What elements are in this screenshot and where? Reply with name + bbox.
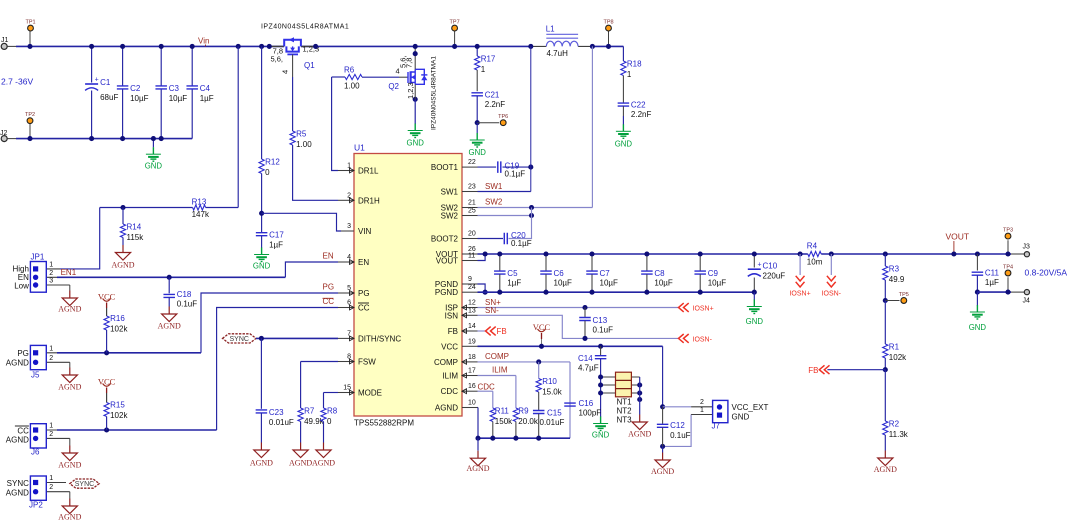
- svg-text:ISN: ISN: [445, 311, 459, 320]
- svg-text:FB: FB: [808, 366, 818, 375]
- wire R6 to Q2 gate: [362, 76, 399, 78]
- junction R15 tap: [104, 427, 109, 432]
- junction C1/Vin: [89, 44, 94, 49]
- svg-text:TP6: TP6: [498, 114, 508, 120]
- wire SN+ net: [478, 307, 679, 309]
- svg-text:C22: C22: [631, 101, 646, 110]
- label C16: [579, 399, 602, 418]
- svg-text:68uF: 68uF: [100, 93, 118, 102]
- connector J3: [1011, 244, 1030, 257]
- svg-text:GND: GND: [253, 262, 271, 271]
- svg-text:10: 10: [468, 400, 476, 407]
- junction R16 tap: [104, 350, 109, 355]
- svg-text:4: 4: [281, 70, 290, 74]
- wire to TP5: [885, 300, 899, 302]
- svg-text:BOOT1: BOOT1: [431, 163, 459, 172]
- wire R3 top: [884, 254, 886, 266]
- svg-text:102k: 102k: [110, 325, 128, 334]
- svg-text:CDC: CDC: [441, 387, 459, 396]
- test point TP7: [454, 31, 456, 46]
- capacitor C13: [579, 316, 613, 335]
- svg-text:AGND: AGND: [435, 404, 458, 413]
- ground AGND NT: [628, 415, 651, 439]
- wire CC riser: [217, 308, 338, 431]
- wire Q2 drain: [414, 46, 416, 69]
- wire AGND pin drop: [477, 408, 479, 439]
- wire C7 bottom lead: [591, 274, 593, 292]
- wire Q1 gate to R5: [292, 77, 294, 131]
- svg-text:GND: GND: [615, 140, 633, 149]
- TP8 circle: [603, 19, 613, 31]
- wire C6 bottom lead: [545, 274, 547, 292]
- wire VOUT rail left: [478, 253, 808, 255]
- wire R15 bottom: [106, 417, 108, 431]
- wire C12 bottom lead: [662, 428, 664, 447]
- svg-text:VCC: VCC: [441, 342, 458, 351]
- svg-text:Q1: Q1: [304, 61, 315, 70]
- svg-text:C2: C2: [130, 84, 141, 93]
- svg-text:TP5: TP5: [899, 292, 909, 298]
- svg-text:IOSN-: IOSN-: [693, 337, 713, 344]
- junction C12/J7: [660, 404, 665, 409]
- wire R11 bottom: [492, 422, 494, 439]
- wire PG riser: [201, 293, 338, 353]
- wire C14 top lead: [600, 346, 602, 355]
- wire JP2 pin2 down: [69, 492, 71, 499]
- svg-text:1: 1: [49, 261, 53, 268]
- transistor Q1: [269, 37, 315, 70]
- capacitor C17: [256, 231, 284, 250]
- svg-text:JP2: JP2: [29, 501, 43, 510]
- svg-text:16: 16: [468, 383, 476, 390]
- junction R17/Vin: [475, 44, 480, 49]
- ground GND Q2: [407, 124, 425, 148]
- wire C1 bottom lead: [91, 91, 93, 139]
- resistor R12: [259, 158, 280, 178]
- svg-text:J7: J7: [712, 422, 721, 431]
- svg-text:TP1: TP1: [25, 19, 35, 25]
- svg-text:VOUT: VOUT: [436, 257, 458, 266]
- wire R3 to TP5 node: [884, 280, 886, 301]
- svg-text:FB: FB: [448, 327, 458, 336]
- svg-text:23: 23: [468, 184, 476, 191]
- svg-text:SW1: SW1: [441, 188, 459, 197]
- wire C22 lead btm: [622, 106, 624, 116]
- svg-text:49.9: 49.9: [889, 275, 905, 284]
- capacitor C18: [163, 290, 197, 309]
- junction AGND rail 538.7: [536, 436, 541, 441]
- capacitor C2: [117, 84, 149, 103]
- J4 jack: [1024, 290, 1029, 295]
- svg-text:11.3k: 11.3k: [889, 430, 909, 439]
- svg-text:2.2nF: 2.2nF: [485, 100, 506, 109]
- svg-text:14: 14: [468, 323, 476, 330]
- svg-text:SW2: SW2: [485, 198, 503, 207]
- wire J2 stub: [7, 138, 16, 140]
- svg-text:22: 22: [468, 159, 476, 166]
- junction C12 bottom: [660, 444, 665, 449]
- wire to VIN pin: [262, 213, 341, 231]
- svg-text:0.1uF: 0.1uF: [593, 326, 614, 335]
- svg-text:20: 20: [468, 231, 476, 238]
- wire R7 to AGND: [300, 422, 302, 443]
- svg-text:PG: PG: [17, 349, 29, 358]
- svg-text:IPZ40N04S5L4R8ATMA1: IPZ40N04S5L4R8ATMA1: [431, 56, 438, 130]
- svg-text:0.1µF: 0.1µF: [505, 170, 526, 179]
- wire PGND to GND: [753, 292, 755, 300]
- ground AGND J6: [58, 446, 81, 470]
- resistor R6: [344, 66, 362, 91]
- svg-text:COMP: COMP: [485, 352, 509, 361]
- junction TP1/Vin: [27, 44, 32, 49]
- svg-text:AGND: AGND: [289, 459, 312, 468]
- svg-text:NT1: NT1: [617, 398, 633, 407]
- svg-text:17: 17: [468, 368, 476, 375]
- wire PGND rail: [478, 291, 755, 293]
- wire C1 top lead: [91, 46, 93, 82]
- svg-text:SW2: SW2: [441, 212, 459, 221]
- wire CC net: [57, 429, 217, 431]
- svg-text:1: 1: [49, 423, 53, 430]
- svg-text:VIN: VIN: [358, 227, 372, 236]
- svg-text:24: 24: [468, 284, 476, 291]
- wire J4 rail: [977, 291, 1011, 293]
- wire COMP to R10: [538, 362, 540, 379]
- svg-text:10m: 10m: [807, 258, 823, 267]
- svg-text:AGND: AGND: [312, 459, 335, 468]
- net tie NT1 NT2 NT3 block: [601, 372, 640, 424]
- svg-text:C11: C11: [985, 269, 1000, 278]
- svg-text:GND: GND: [592, 431, 610, 440]
- svg-text:C1: C1: [100, 78, 111, 87]
- wire C21 gnd stem: [476, 123, 478, 133]
- wire R14 to AGND: [122, 238, 124, 246]
- svg-text:R15: R15: [110, 401, 125, 410]
- junction C5 bottom: [497, 290, 502, 295]
- svg-text:GND: GND: [469, 148, 487, 157]
- svg-text:AGND: AGND: [651, 467, 674, 476]
- svg-text:SYNC: SYNC: [75, 481, 94, 488]
- capacitor C9: [694, 269, 726, 288]
- svg-text:C16: C16: [579, 399, 594, 408]
- wire VCC rail: [478, 345, 663, 347]
- wire Q2 source to GND: [414, 99, 416, 124]
- wire to R2: [884, 370, 886, 421]
- wire divider to JP1 pin1: [60, 208, 100, 269]
- wire R10 to C15: [538, 392, 540, 410]
- capacitor C16: [564, 403, 576, 406]
- wire C2 top lead: [122, 46, 124, 85]
- test point TP6: [498, 114, 508, 126]
- svg-text:2: 2: [49, 355, 53, 362]
- wire J1 stub: [7, 45, 16, 47]
- resistor R7: [298, 407, 325, 427]
- junction C7 top: [589, 251, 594, 256]
- svg-text:18: 18: [468, 354, 476, 361]
- junction SW2/pin25: [529, 205, 534, 210]
- svg-text:19: 19: [468, 338, 476, 345]
- junction NT left 385: [598, 382, 603, 387]
- wire FSW drop: [300, 362, 302, 409]
- resistor R18: [621, 60, 642, 80]
- svg-text:AGND: AGND: [6, 489, 29, 498]
- ground GND NT: [592, 417, 610, 440]
- junction C10 top: [752, 251, 757, 256]
- resistor R8: [321, 407, 338, 427]
- junction C19/SW1: [528, 165, 533, 170]
- junction C3/Vin: [159, 44, 164, 49]
- svg-text:C23: C23: [269, 408, 284, 417]
- junction pin25 riser: [529, 213, 534, 218]
- J6 box: [6, 423, 70, 457]
- svg-text:0.01uF: 0.01uF: [540, 418, 565, 427]
- svg-text:C17: C17: [269, 231, 284, 240]
- label net Vin: [198, 37, 209, 47]
- junction R10 tap: [536, 359, 541, 364]
- ground GND C11: [969, 305, 987, 332]
- svg-text:VCC: VCC: [98, 377, 116, 387]
- svg-text:VCC_EXT: VCC_EXT: [732, 403, 769, 412]
- svg-text:AGND: AGND: [111, 261, 134, 270]
- junction R12 branch: [259, 44, 264, 49]
- wire EN1 to EN pin: [285, 262, 338, 277]
- svg-text:SW1: SW1: [485, 182, 503, 191]
- junction C14 tap: [598, 344, 603, 349]
- wire to R1: [884, 301, 886, 345]
- wire R1 to FB node: [884, 358, 886, 370]
- capacitor C21: [471, 90, 505, 109]
- svg-text:JP1: JP1: [31, 253, 45, 262]
- test point TP1: [29, 31, 31, 46]
- svg-text:AGND: AGND: [6, 436, 29, 445]
- connector J2: [0, 130, 8, 142]
- junction AGND rail 515.9: [513, 436, 518, 441]
- wire R16 bottom: [106, 330, 108, 353]
- junction TP8/VOUT node: [606, 44, 611, 49]
- svg-text:0.1uF: 0.1uF: [670, 431, 691, 440]
- svg-text:C8: C8: [654, 269, 665, 278]
- svg-text:9: 9: [468, 276, 472, 283]
- svg-text:1: 1: [49, 475, 53, 482]
- svg-text:1µF: 1µF: [269, 241, 283, 250]
- capacitor C6: [540, 269, 572, 288]
- svg-text:CDC: CDC: [478, 383, 496, 392]
- svg-text:EN: EN: [358, 258, 369, 267]
- wire to J7 pin2: [663, 406, 692, 408]
- svg-text:TPS552882RPM: TPS552882RPM: [354, 419, 414, 428]
- wire C11 top lead: [976, 254, 978, 271]
- svg-text:147k: 147k: [192, 210, 210, 219]
- junction R3 top: [883, 251, 888, 256]
- svg-text:AGND: AGND: [6, 359, 29, 368]
- junction C5 top: [497, 251, 502, 256]
- svg-text:PGND: PGND: [435, 288, 458, 297]
- svg-text:10µF: 10µF: [130, 94, 149, 103]
- svg-text:R14: R14: [127, 223, 142, 232]
- svg-text:2.7 -36V: 2.7 -36V: [1, 77, 33, 87]
- svg-text:49.9k: 49.9k: [304, 417, 325, 426]
- svg-text:IOSN-: IOSN-: [822, 291, 842, 298]
- ground GND input: [145, 147, 163, 170]
- ground AGND JP1: [58, 291, 81, 314]
- junction C23 tap: [259, 336, 264, 341]
- wire Vin rail right: [592, 45, 623, 47]
- wire R13 left: [100, 207, 193, 209]
- svg-text:C9: C9: [708, 269, 719, 278]
- ground GND C22: [615, 124, 633, 148]
- svg-text:GND: GND: [732, 412, 750, 421]
- U1 right pins: [431, 159, 478, 412]
- svg-text:C15: C15: [547, 409, 562, 418]
- capacitor C14: [595, 356, 607, 359]
- capacitor C15: [533, 411, 545, 414]
- svg-text:FB: FB: [497, 327, 507, 336]
- label net CC: [323, 297, 335, 306]
- wire C16 branch: [569, 362, 571, 438]
- junction pin9/pin24: [483, 290, 488, 295]
- inductor L1: [531, 25, 593, 58]
- svg-text:R8: R8: [327, 407, 338, 416]
- wire AGND pin: [477, 407, 480, 409]
- J2 jack: [1, 136, 7, 142]
- svg-text:PG: PG: [358, 289, 370, 298]
- svg-text:MODE: MODE: [358, 389, 382, 398]
- power flag VCC R16: [98, 292, 116, 317]
- wire NT to AGND: [639, 377, 641, 415]
- resistor R11: [490, 407, 513, 427]
- label Q1 pins: [270, 45, 319, 75]
- junction C6 top: [543, 251, 548, 256]
- wire Q2 gate stub: [399, 76, 408, 78]
- wire C4 bottom lead: [191, 89, 193, 139]
- svg-text:C5: C5: [507, 269, 518, 278]
- ground AGND C18: [158, 307, 181, 331]
- label C15: [540, 409, 565, 428]
- svg-text:C13: C13: [593, 316, 608, 325]
- svg-text:IOSN+: IOSN+: [693, 306, 714, 313]
- wire C13 bottom lead: [584, 321, 586, 339]
- ground GND C17: [253, 248, 271, 271]
- svg-text:4: 4: [396, 67, 400, 76]
- wire input return rail: [16, 138, 192, 140]
- junction C13 bottom: [582, 336, 587, 341]
- svg-text:TP3: TP3: [1003, 228, 1013, 234]
- svg-text:AGND: AGND: [58, 305, 81, 314]
- svg-text:0.8-20V/5A: 0.8-20V/5A: [1025, 268, 1068, 278]
- wire ILIM net: [478, 375, 516, 377]
- JP1 box: [12, 253, 69, 293]
- capacitor C7: [586, 269, 618, 288]
- junction NT right 393: [637, 390, 642, 395]
- test point TP4: [1007, 277, 1009, 292]
- svg-text:IPZ40N04S5L4R8ATMA1: IPZ40N04S5L4R8ATMA1: [261, 24, 349, 31]
- resistor R3: [883, 265, 905, 285]
- junction NT left 393: [598, 390, 603, 395]
- svg-text:1µF: 1µF: [507, 279, 521, 288]
- svg-text:1: 1: [49, 345, 53, 352]
- junction L1 right / SW2: [590, 44, 595, 49]
- label net VOUT: [946, 232, 970, 255]
- svg-text:NT2: NT2: [617, 407, 633, 416]
- wire C5 bottom lead: [499, 274, 501, 292]
- resistor R4: [807, 242, 823, 267]
- wire to output GND: [976, 292, 978, 305]
- wire C15 bottom: [538, 414, 540, 438]
- svg-text:R17: R17: [481, 55, 496, 64]
- JP2 box: [6, 475, 70, 510]
- svg-text:Vin: Vin: [198, 37, 209, 46]
- wire C18 top: [168, 277, 170, 293]
- svg-text:10µF: 10µF: [708, 279, 727, 288]
- svg-text:GND: GND: [145, 162, 163, 171]
- svg-text:0.1µF: 0.1µF: [511, 239, 532, 248]
- label net VCC: [533, 322, 551, 346]
- connector J7: [691, 399, 768, 431]
- capacitor C10: [748, 262, 785, 281]
- wire C21 to GND: [476, 96, 478, 123]
- wire MODE drop: [323, 393, 325, 409]
- svg-text:Low: Low: [14, 282, 29, 291]
- wire R5 to DR1H: [293, 145, 338, 200]
- U1 left pins: [338, 163, 401, 398]
- svg-text:0: 0: [265, 168, 270, 177]
- svg-text:1.00: 1.00: [296, 140, 312, 149]
- junction FB tap: [883, 367, 888, 372]
- svg-text:115k: 115k: [127, 233, 145, 242]
- svg-text:CC: CC: [17, 427, 29, 436]
- svg-text:AGND: AGND: [628, 430, 651, 439]
- wire R9 bottom: [515, 422, 517, 439]
- wire J7 pin1 to AGND node: [663, 415, 692, 447]
- svg-text:EN: EN: [323, 252, 334, 261]
- junction VCC label: [539, 344, 544, 349]
- svg-text:VCC: VCC: [533, 322, 551, 332]
- svg-text:AGND: AGND: [466, 464, 489, 473]
- svg-text:TP8: TP8: [603, 19, 613, 25]
- wire JP1 pin3 down: [69, 285, 71, 291]
- svg-text:TP4: TP4: [1003, 265, 1013, 271]
- capacitor C5: [494, 269, 521, 288]
- wire R12 to C17: [261, 174, 263, 233]
- junction C9 bottom: [698, 290, 703, 295]
- ground AGND R8: [312, 443, 335, 468]
- wire SYNC to C23: [260, 338, 262, 408]
- wire R13 right: [206, 207, 239, 209]
- wire Q1 gate stub: [292, 54, 294, 77]
- junction C11 bottom: [975, 290, 980, 295]
- svg-text:ILIM: ILIM: [492, 366, 508, 375]
- svg-text:AGND: AGND: [58, 383, 81, 392]
- svg-text:DR1L: DR1L: [358, 167, 379, 176]
- junction C2/return: [120, 136, 125, 141]
- svg-text:1µF: 1µF: [200, 94, 214, 103]
- junction C7 bottom: [589, 290, 594, 295]
- capacitor C11: [972, 269, 1000, 288]
- J3 jack: [1024, 252, 1029, 257]
- wire C18 bottom: [168, 297, 170, 306]
- junction Q1 source stub: [267, 44, 272, 49]
- svg-text:R7: R7: [304, 407, 315, 416]
- junction C4/Vin: [190, 44, 195, 49]
- ground AGND J5: [58, 368, 81, 392]
- wire Vin rail mid: [301, 45, 531, 47]
- ground GND C21: [469, 133, 487, 157]
- svg-text:C7: C7: [600, 269, 611, 278]
- wire C13 top lead: [584, 308, 586, 318]
- resistor R10: [536, 377, 563, 397]
- wire C10 top lead: [753, 254, 755, 268]
- net tag SYNC at JP2: [70, 479, 99, 488]
